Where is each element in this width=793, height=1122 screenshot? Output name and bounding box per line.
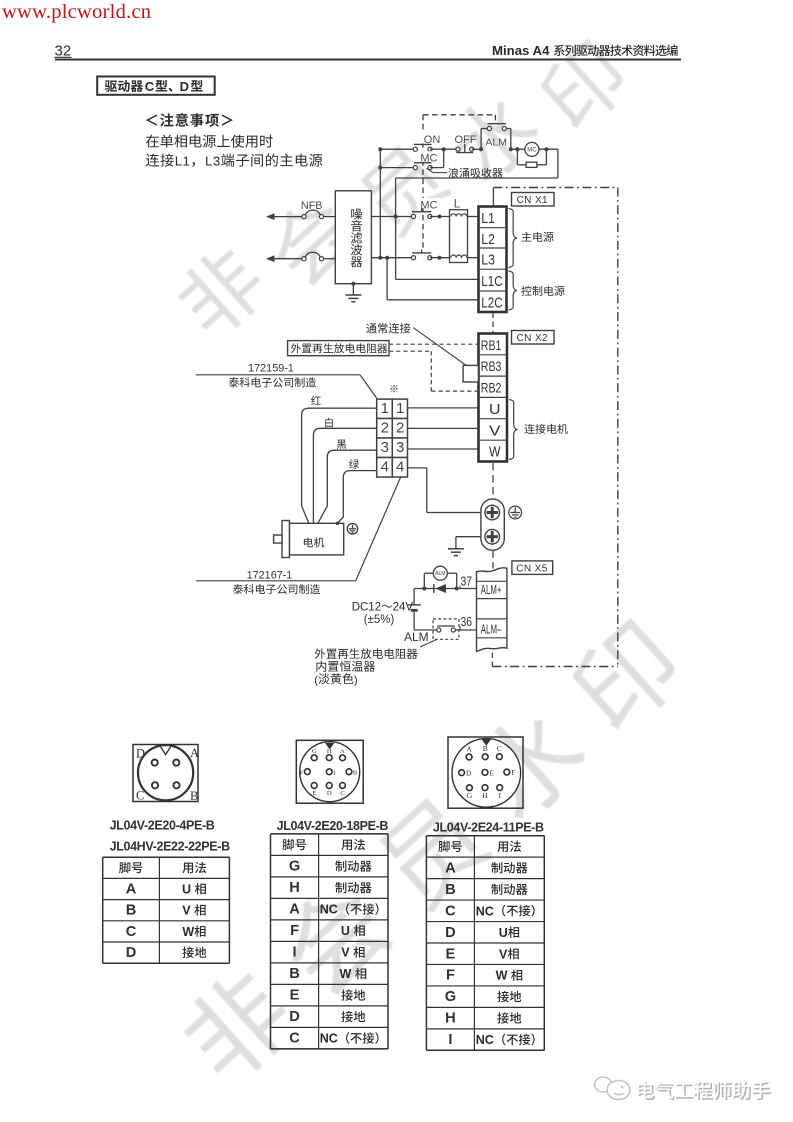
pinout table 18-pin <box>271 833 389 835</box>
ground screw top <box>485 505 500 520</box>
leader 172167 <box>196 580 356 582</box>
svg-text:ALM+: ALM+ <box>481 582 502 597</box>
connector drawing 18-pin <box>296 740 363 803</box>
svg-text:E: E <box>446 946 456 962</box>
label box external regen resistor <box>288 341 389 356</box>
svg-text:ALM–: ALM– <box>481 621 502 636</box>
svg-text:1: 1 <box>381 400 389 417</box>
svg-text:E: E <box>290 988 300 1004</box>
brace main power <box>509 209 518 268</box>
svg-text:A: A <box>445 860 456 876</box>
svg-text:Minas A4: Minas A4 <box>492 43 550 58</box>
motor body <box>289 523 343 555</box>
pinout table 4-pin <box>103 856 230 858</box>
dashed below CN X5 <box>491 653 493 667</box>
dashed mechanical linkage rectangle <box>423 114 495 116</box>
svg-text:CN X5: CN X5 <box>516 564 547 575</box>
svg-text:E: E <box>489 768 494 777</box>
connector CN X2 label box <box>512 331 555 345</box>
svg-text:(±5%): (±5%) <box>364 614 395 626</box>
svg-text:C: C <box>136 789 144 803</box>
motor earth screw <box>347 524 358 535</box>
svg-text:NC: NC <box>476 1033 494 1047</box>
svg-text:F: F <box>300 770 304 777</box>
ground symbol below screws <box>448 548 464 550</box>
svg-text:V: V <box>341 946 350 960</box>
terminal strip CN X1 <box>479 207 507 313</box>
breaker NFB phase 1 <box>275 216 302 218</box>
wire OFF to ALM <box>472 148 481 150</box>
svg-text:CN X1: CN X1 <box>517 195 548 206</box>
svg-text:ALM: ALM <box>485 137 507 149</box>
thermostat contact dashed box <box>433 619 459 639</box>
svg-text:G: G <box>445 989 456 1005</box>
note line 1 <box>146 135 159 148</box>
svg-text:B: B <box>190 789 198 803</box>
svg-text:L1: L1 <box>481 210 495 227</box>
label maker2 泰科电子公司制造 <box>233 584 243 594</box>
svg-text:L1C: L1C <box>481 273 502 290</box>
pin block row 3 <box>377 438 393 458</box>
dashed link CN X1 to CN X2 <box>492 313 494 334</box>
svg-text:W: W <box>340 967 352 981</box>
svg-text:2: 2 <box>396 420 404 437</box>
contact OFF (NC pushbutton) <box>456 147 460 151</box>
dashed wire resistor to RB1 <box>389 343 479 345</box>
svg-text:ON: ON <box>424 134 441 146</box>
svg-text:D: D <box>466 769 472 778</box>
brace control power <box>509 271 518 310</box>
svg-text:B: B <box>483 744 488 753</box>
wire ALM to MC coil <box>511 148 525 150</box>
wire to reactor pole1 <box>430 216 450 218</box>
wire pin1 to U <box>408 407 479 409</box>
terminal strip CN X2 <box>479 334 508 462</box>
connector CN X1 label box <box>512 193 555 207</box>
svg-text:W: W <box>182 925 194 939</box>
terminal strip CN X5 torn <box>477 568 507 652</box>
wire MC coil to right <box>539 148 558 150</box>
noise filter box <box>335 191 371 284</box>
svg-text:A: A <box>289 902 300 918</box>
red wire <box>302 408 377 522</box>
label 电机 <box>304 537 313 547</box>
reactor coil 2 <box>451 255 467 258</box>
svg-text:NC: NC <box>476 904 494 918</box>
svg-text:3: 3 <box>396 439 404 456</box>
wire to thermostat contact <box>414 629 437 631</box>
svg-text:D: D <box>327 790 332 797</box>
svg-text:NC: NC <box>320 1032 338 1046</box>
note line2 内置恒温器 <box>316 661 326 672</box>
section label box 驱动器C型、D型 <box>97 77 215 95</box>
svg-text:D: D <box>445 925 456 941</box>
connector CN X5 label box <box>512 561 553 575</box>
enclosure dash-dot border top <box>493 187 617 189</box>
svg-text:NFB: NFB <box>301 200 323 212</box>
note external resistor line1 <box>315 648 326 659</box>
wire into CN X1 top <box>492 188 494 207</box>
label 通常连接 <box>366 323 377 333</box>
white wire <box>313 428 376 522</box>
wire ALM+ 37 <box>414 588 476 590</box>
svg-text:1: 1 <box>396 400 404 417</box>
wire reactor to L1 terminal <box>468 216 479 218</box>
svg-text:A: A <box>340 748 345 755</box>
svg-text:C: C <box>340 790 344 797</box>
leader normal-connection <box>413 328 467 366</box>
svg-text:(: ( <box>314 674 318 686</box>
svg-text:RB2: RB2 <box>481 380 502 396</box>
svg-text:C: C <box>126 924 137 940</box>
svg-text:W: W <box>489 445 501 461</box>
svg-text:L3: L3 <box>205 154 221 169</box>
svg-text:C: C <box>445 903 456 919</box>
footer logo icon <box>595 1077 631 1100</box>
svg-text:A: A <box>190 746 199 760</box>
svg-text:C: C <box>497 744 502 753</box>
svg-text:D: D <box>289 1009 300 1025</box>
svg-text:RB3: RB3 <box>481 358 502 374</box>
enclosure dash-dot border right <box>617 188 619 667</box>
wire ALM- 36 <box>455 629 476 631</box>
leader thermostat note <box>420 640 436 647</box>
svg-text:A: A <box>126 881 137 897</box>
green wire <box>337 471 376 524</box>
svg-text:G: G <box>312 748 317 755</box>
svg-text:4: 4 <box>396 459 404 476</box>
svg-text:U: U <box>341 924 350 938</box>
svg-text:W: W <box>496 969 508 983</box>
svg-text:V: V <box>499 947 508 961</box>
svg-text:2: 2 <box>381 420 389 437</box>
svg-text:RB1: RB1 <box>481 337 502 353</box>
wire between ON and OFF <box>430 148 458 150</box>
breaker NFB phase 2 <box>275 258 302 260</box>
reference mark ※ <box>390 385 397 392</box>
svg-text:MC: MC <box>420 153 437 165</box>
note heading 注意事项 <box>146 115 157 126</box>
svg-text:H: H <box>445 1011 456 1027</box>
svg-text:172159-1: 172159-1 <box>248 363 294 375</box>
svg-text:OFF: OFF <box>455 134 477 146</box>
svg-text:NC: NC <box>320 903 338 917</box>
svg-text:4: 4 <box>381 459 389 476</box>
label maker1 泰科电子公司制造 <box>229 377 239 387</box>
svg-text:JL04V-2E20-4PE-B: JL04V-2E20-4PE-B <box>110 819 215 833</box>
label 浪涌吸收器 surge absorber <box>427 168 434 172</box>
connector drawing 11-pin <box>448 737 523 808</box>
ground screw bottom <box>485 529 500 544</box>
svg-text:DC12: DC12 <box>352 602 381 614</box>
header rule <box>55 59 681 61</box>
wire pin3 to W <box>408 448 479 450</box>
dashed link W to ground plate <box>492 463 494 498</box>
svg-text:B: B <box>445 882 456 898</box>
svg-text:172167-1: 172167-1 <box>247 570 293 582</box>
svg-text:3: 3 <box>381 439 389 456</box>
svg-text:L1: L1 <box>175 154 191 169</box>
wire pin2 to V <box>408 427 479 429</box>
svg-text:A: A <box>466 745 472 754</box>
svg-text:36: 36 <box>461 614 473 629</box>
svg-text:G: G <box>289 859 300 875</box>
svg-text:CN X2: CN X2 <box>517 333 548 344</box>
connector drawing 4-pin <box>133 745 198 802</box>
relay contact ALM (alarm NO contact block) <box>480 129 482 150</box>
brace connect motor <box>509 400 518 460</box>
svg-text:D: D <box>180 79 189 94</box>
svg-text:B: B <box>289 966 300 982</box>
contact MC main pole 1 <box>411 214 415 218</box>
svg-text:V: V <box>182 904 191 918</box>
wire L3 phase <box>371 257 413 259</box>
svg-text:C: C <box>289 1031 300 1047</box>
wire bottom screw to ground <box>456 536 481 538</box>
jumper bar RB3-RB2 <box>463 365 478 382</box>
svg-text:JL04V-2E20-18PE-B: JL04V-2E20-18PE-B <box>277 819 389 833</box>
enclosure dash-dot border bottom <box>492 666 617 668</box>
reactor coil 1 <box>451 214 467 217</box>
wire to reactor pole2 <box>430 257 450 259</box>
dashed wire resistor to RB2 <box>389 350 431 352</box>
arrow incoming phase 2 <box>269 258 277 260</box>
arrow incoming phase 1 <box>269 216 277 218</box>
note line 2 <box>146 154 159 167</box>
motor shaft <box>274 535 282 543</box>
svg-text:U: U <box>489 402 501 418</box>
svg-text:MC: MC <box>527 148 537 154</box>
svg-text:F: F <box>446 968 455 984</box>
svg-text:F: F <box>511 768 515 777</box>
diode flyback <box>435 584 446 593</box>
wire relay feed vertical <box>379 149 381 258</box>
svg-text:I: I <box>448 1032 452 1048</box>
svg-text:MC: MC <box>420 200 437 212</box>
noise filter ground <box>352 284 354 295</box>
motor flange <box>282 521 289 558</box>
svg-text:ALM: ALM <box>435 571 445 577</box>
leader 172159 <box>196 374 360 376</box>
svg-text:I: I <box>293 945 297 961</box>
svg-text:D: D <box>126 945 137 961</box>
svg-text:H: H <box>327 748 332 755</box>
svg-text:D: D <box>136 747 145 761</box>
svg-text:H: H <box>482 791 488 800</box>
svg-text:U: U <box>182 882 191 896</box>
pin block row 2 <box>377 419 393 439</box>
svg-text:H: H <box>289 880 300 896</box>
pin block row 4 <box>377 458 393 478</box>
wire L2C control power <box>386 258 388 300</box>
wire relay return <box>557 149 559 178</box>
svg-text:E: E <box>312 790 316 797</box>
pinout table 11-pin <box>426 835 544 837</box>
svg-text:V: V <box>489 423 501 439</box>
battery DC12-24V <box>413 589 415 605</box>
wire L1C control power <box>396 278 479 280</box>
ground screw plate (stadium) <box>481 499 504 550</box>
svg-text:L: L <box>454 198 461 210</box>
contact MC main pole 2 <box>411 256 415 260</box>
svg-text:www.plcworld.cn: www.plcworld.cn <box>2 1 151 23</box>
svg-text:G: G <box>467 791 473 800</box>
svg-text:B: B <box>353 770 358 777</box>
svg-text:U: U <box>499 926 508 940</box>
pin block row 1 <box>377 399 393 418</box>
svg-text:C: C <box>145 79 155 94</box>
watermark diagonal text upper <box>168 35 634 344</box>
svg-text:ALM: ALM <box>404 630 429 644</box>
svg-text:): ) <box>354 674 358 686</box>
svg-text:JL04HV-2E22-22PE-B: JL04HV-2E22-22PE-B <box>110 840 230 854</box>
svg-text:L3: L3 <box>481 252 495 269</box>
wire reactor to L3 terminal <box>468 257 479 259</box>
coil ALM relay <box>423 573 425 588</box>
surge absorber resistor <box>516 149 518 165</box>
dashed link plate to CN X5 <box>492 550 494 568</box>
wire relay main line <box>380 148 415 150</box>
contact MC auxiliary (self-hold) <box>380 167 415 169</box>
protective earth symbol <box>509 506 522 519</box>
footer logo text embossed <box>637 1081 770 1100</box>
svg-text:JL04V-2E24-11PE-B: JL04V-2E24-11PE-B <box>433 820 544 834</box>
svg-text:I: I <box>333 770 335 777</box>
svg-text:B: B <box>126 903 137 919</box>
contact ON (NO pushbutton) <box>413 147 417 151</box>
coil MC (contactor coil) <box>525 142 539 156</box>
svg-text:24V: 24V <box>393 602 414 614</box>
svg-text:F: F <box>290 923 299 939</box>
svg-text:L2C: L2C <box>481 295 502 312</box>
wire pin4 to ground screws <box>408 467 427 469</box>
wire L1 phase <box>371 216 413 218</box>
svg-text:L2: L2 <box>481 231 495 248</box>
reactor L box <box>450 210 468 263</box>
svg-text:37: 37 <box>461 573 473 588</box>
watermark diagonal text lower <box>171 612 689 1091</box>
black wire <box>318 450 376 522</box>
